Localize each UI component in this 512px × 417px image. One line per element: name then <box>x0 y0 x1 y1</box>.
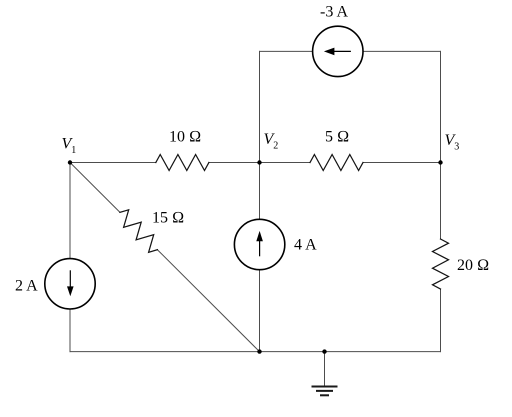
node V2 junction dot <box>257 160 261 164</box>
node V1 junction dot <box>68 160 72 164</box>
wire top from -3A source to right riser <box>364 50 441 52</box>
svg-text:20 Ω: 20 Ω <box>457 257 489 274</box>
svg-text:10 Ω: 10 Ω <box>169 129 201 146</box>
current source I3 arrow (pointing down) <box>67 270 74 296</box>
resistor R3 15 ohm (diagonal) <box>120 210 157 253</box>
bottom junction dot (diagonal / 4A) <box>257 349 261 353</box>
current source I3 2A (circle) <box>45 259 95 309</box>
current source I1 arrow (pointing left) <box>324 48 351 56</box>
wire V3 down to 20-ohm resistor <box>440 163 442 240</box>
resistor R1 10 ohm <box>156 155 209 171</box>
wire right riser top (top wire down to V3) <box>440 51 442 162</box>
current source I2 arrow (pointing up) <box>256 231 263 256</box>
svg-text:-3 A: -3 A <box>320 4 348 21</box>
wire 5-ohm resistor to V3 <box>363 162 441 164</box>
wire left riser of top loop (V2 to top) <box>259 51 261 162</box>
resistor R4 20 ohm <box>433 239 449 289</box>
svg-text:4 A: 4 A <box>294 237 317 254</box>
ground symbol <box>312 387 338 396</box>
wire V1 to 10-ohm resistor <box>70 162 156 164</box>
wire 15-ohm resistor to bottom node <box>157 250 259 352</box>
ground stub wire <box>324 352 326 386</box>
current source I1 -3A (circle) <box>313 26 363 76</box>
wire diagonal V1 to 15-ohm resistor <box>70 163 120 213</box>
svg-text:15 Ω: 15 Ω <box>152 210 184 227</box>
wire V2 to 5-ohm resistor <box>260 162 311 164</box>
wire bottom rail <box>70 351 441 353</box>
node V3 junction dot <box>438 160 442 164</box>
svg-text:5 Ω: 5 Ω <box>325 129 349 146</box>
wire top from V2 riser to -3A source <box>260 50 313 52</box>
current source I2 4A (circle) <box>234 219 284 269</box>
ground junction dot <box>322 349 326 353</box>
svg-text:2 A: 2 A <box>15 278 38 295</box>
wire 10-ohm resistor to V2 <box>209 162 260 164</box>
wire V2 down through 4A source to bottom node <box>259 163 261 352</box>
resistor R2 5 ohm <box>310 155 363 171</box>
wire V1 down through 2A source to bottom <box>69 163 71 352</box>
wire 20-ohm resistor to bottom <box>440 289 442 352</box>
